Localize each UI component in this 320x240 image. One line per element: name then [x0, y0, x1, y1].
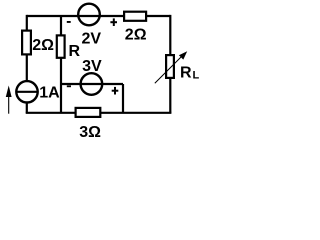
voltage source U2 3V (circle body) — [81, 73, 103, 95]
svg-text:2Ω: 2Ω — [32, 37, 54, 54]
current source I1 bar — [16, 91, 37, 93]
current direction arrow (1A) — [8, 96, 10, 114]
wire right branch — [169, 15, 171, 113]
wire top: node A to node B — [27, 15, 171, 17]
wire bottom — [26, 112, 172, 114]
resistor 2 ohm left (box) — [22, 31, 31, 55]
wire 3V branch — [61, 83, 123, 85]
svg-text:2Ω: 2Ω — [125, 26, 147, 43]
label plus of 2V — [110, 21, 117, 23]
svg-text:L: L — [193, 70, 200, 82]
resistor RL load (box) — [166, 55, 174, 78]
resistor 2 ohm top (box) — [124, 12, 146, 21]
voltage source U1 2V (circle body) — [78, 4, 100, 26]
svg-text:R: R — [69, 43, 81, 60]
wire left branch — [26, 15, 28, 113]
label minus of 2V — [67, 21, 71, 23]
svg-text:3Ω: 3Ω — [79, 124, 101, 140]
resistor RL variable arrow — [155, 57, 182, 84]
svg-text:1A: 1A — [39, 85, 60, 102]
resistor R (box) — [57, 35, 65, 57]
wire middle branch (through R) — [60, 16, 62, 113]
resistor 3 ohm bottom (box) — [76, 108, 101, 117]
svg-text:3V: 3V — [82, 58, 102, 75]
svg-text:2V: 2V — [82, 30, 102, 47]
label plus of 3V — [112, 90, 119, 92]
label minus of 3V — [67, 85, 71, 87]
svg-text:R: R — [180, 64, 192, 81]
current source I1 1A (circle body) — [16, 81, 37, 102]
wire from 3V branch down to bottom — [122, 84, 124, 113]
